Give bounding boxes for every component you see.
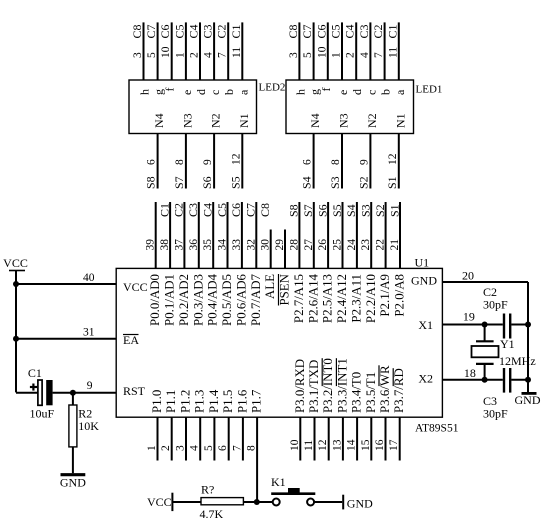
wire U1 pin 26 [327, 202, 329, 268]
wire U1 pin 23 [370, 202, 372, 268]
svg-text:C1: C1 [157, 203, 171, 217]
svg-text:AT89S51: AT89S51 [415, 423, 459, 435]
svg-text:P2.6/A14: P2.6/A14 [306, 273, 320, 323]
capacitor C1 [16, 380, 53, 405]
node X2 junction [482, 377, 488, 383]
svg-text:4: 4 [189, 445, 201, 451]
svg-text:GND: GND [411, 274, 437, 288]
wire U1 pin 1 [157, 417, 159, 460]
svg-text:S2: S2 [356, 176, 370, 189]
node RST junction [70, 390, 76, 396]
wire LED1 segment C3 [369, 22, 371, 80]
wire U1 pin 2 [171, 417, 173, 460]
wire U1 pin 32 [255, 202, 257, 268]
svg-text:30pF: 30pF [483, 407, 508, 421]
wire LED2 segment C5 [185, 22, 187, 80]
capacitor C2 [504, 314, 510, 339]
svg-text:22: 22 [375, 239, 387, 251]
svg-text:PSEN: PSEN [278, 273, 292, 305]
wire LED1 segment C4 [355, 22, 357, 80]
wire LED2 segment C2 [227, 22, 229, 80]
wire U1 pin 8 [256, 417, 258, 502]
svg-text:9: 9 [87, 380, 93, 392]
svg-text:VCC: VCC [123, 280, 148, 294]
svg-text:P0.5/AD5: P0.5/AD5 [220, 274, 234, 326]
wire LED2 segment S6 [213, 134, 215, 189]
svg-text:10K: 10K [78, 419, 99, 433]
svg-text:2: 2 [189, 52, 201, 58]
svg-text:32: 32 [245, 239, 257, 251]
svg-text:7: 7 [217, 52, 229, 58]
svg-text:LED1: LED1 [416, 84, 443, 96]
svg-text:10uF: 10uF [30, 406, 55, 420]
wire U1 pin 18 (X2) [442, 379, 528, 381]
svg-text:P1.2: P1.2 [179, 390, 193, 413]
svg-text:P2.4/A12: P2.4/A12 [335, 274, 349, 323]
wire U1 pin 5 [213, 417, 215, 460]
svg-text:C7: C7 [244, 203, 258, 217]
svg-text:4.7K: 4.7K [200, 507, 224, 521]
svg-text:12MHz: 12MHz [499, 354, 536, 368]
wire LED2 segment C8 [143, 22, 145, 80]
svg-text:X1: X1 [418, 318, 433, 332]
svg-text:S6: S6 [200, 176, 214, 189]
svg-text:14: 14 [346, 439, 358, 451]
wire U1 pin 15 [370, 417, 372, 460]
svg-text:1: 1 [174, 52, 186, 58]
svg-text:2: 2 [345, 52, 357, 58]
resistor R? [201, 498, 243, 505]
svg-text:35: 35 [202, 239, 214, 251]
wire U1 pin 30 [270, 230, 272, 269]
svg-text:1: 1 [331, 52, 343, 58]
wire LED2 segment C1 [241, 22, 243, 80]
svg-text:C8: C8 [130, 24, 144, 38]
wire VCC rail [15, 271, 17, 393]
wire U1 pin 20 to right rail [442, 281, 528, 283]
wire U1 pin 10 [299, 417, 301, 460]
wire LED2 segment C3 [213, 22, 215, 80]
svg-text:29: 29 [274, 239, 286, 251]
svg-text:C6: C6 [158, 24, 172, 38]
ground (below R2) [60, 475, 86, 490]
svg-text:37: 37 [173, 239, 185, 251]
wire LED2 segment C6 [171, 22, 173, 80]
svg-text:8: 8 [330, 159, 342, 165]
svg-text:S2: S2 [373, 204, 387, 217]
svg-text:P3.3/INT1: P3.3/INT1 [335, 358, 349, 413]
svg-text:S1: S1 [387, 204, 401, 217]
svg-text:38: 38 [159, 239, 171, 251]
node pin8/K1 junction [254, 499, 260, 505]
wire U1 pin 25 [342, 202, 344, 268]
svg-text:5: 5 [203, 445, 215, 451]
svg-text:15: 15 [360, 439, 372, 451]
wire U1 pin 12 [328, 417, 330, 460]
node C3/rail junction [525, 377, 531, 383]
svg-text:P3.0/RXD: P3.0/RXD [293, 359, 307, 413]
svg-text:GND: GND [60, 476, 86, 490]
svg-text:P3.6/WR: P3.6/WR [378, 365, 392, 413]
svg-text:6: 6 [146, 159, 158, 165]
svg-text:6: 6 [302, 159, 314, 165]
svg-text:40: 40 [83, 272, 95, 284]
svg-text:C4: C4 [201, 203, 215, 217]
svg-text:39: 39 [145, 239, 157, 251]
svg-text:S8: S8 [287, 204, 301, 217]
svg-text:C7: C7 [300, 24, 314, 38]
svg-text:e: e [336, 90, 350, 95]
wire U1 pin 14 [356, 417, 358, 460]
svg-text:30pF: 30pF [483, 298, 508, 312]
wire U1 pin 22 [385, 202, 387, 268]
svg-text:c: c [364, 90, 378, 95]
svg-text:f: f [319, 88, 333, 92]
svg-text:f: f [163, 88, 177, 92]
svg-text:S7: S7 [301, 204, 315, 217]
svg-text:C5: C5 [215, 203, 229, 217]
wire LED2 segment C7 [157, 22, 159, 80]
wire LED1 segment S4 [313, 134, 315, 189]
svg-text:P0.7/AD7: P0.7/AD7 [249, 273, 263, 325]
ground connector (bottom) [343, 495, 373, 511]
svg-text:S7: S7 [172, 176, 186, 189]
wire LED1 segment C6 [327, 22, 329, 80]
svg-text:11: 11 [387, 47, 399, 58]
ground (right rail) [515, 393, 541, 407]
svg-text:N2: N2 [209, 113, 223, 128]
svg-text:25: 25 [332, 239, 344, 251]
svg-text:N4: N4 [152, 113, 166, 128]
wire U1 pin 34 [227, 202, 229, 268]
svg-text:9: 9 [358, 159, 370, 165]
svg-text:P3.5/T1: P3.5/T1 [364, 372, 378, 413]
svg-text:3: 3 [132, 52, 144, 58]
svg-text:C5: C5 [172, 24, 186, 38]
svg-text:U1: U1 [415, 255, 430, 269]
svg-text:b: b [222, 89, 236, 95]
wire U1 pin 29 [284, 230, 286, 269]
pin label PSEN (U1) [278, 273, 292, 305]
wire LED1 segment C2 [384, 22, 386, 80]
svg-text:P1.7: P1.7 [250, 389, 264, 413]
svg-text:N3: N3 [180, 113, 194, 128]
svg-text:R?: R? [201, 483, 214, 497]
svg-text:S4: S4 [344, 204, 358, 217]
svg-text:P1.6: P1.6 [235, 389, 249, 413]
svg-text:VCC: VCC [3, 256, 28, 270]
svg-text:e: e [180, 90, 194, 95]
wire LED1 segment C8 [298, 22, 300, 80]
power VCC connector (bottom) [147, 493, 172, 511]
wire LED2 segment C4 [199, 22, 201, 80]
svg-text:S5: S5 [228, 176, 242, 189]
wire U1 pin 31 [16, 338, 116, 340]
svg-text:ALE: ALE [263, 274, 277, 299]
svg-text:GND: GND [515, 393, 541, 407]
wire LED1 segment S3 [341, 134, 343, 189]
svg-text:19: 19 [463, 309, 475, 323]
svg-text:34: 34 [217, 239, 229, 251]
svg-text:1: 1 [146, 445, 158, 451]
wire U1 pin 6 [228, 417, 230, 460]
svg-text:4: 4 [203, 52, 215, 58]
pin label P3.7/RD (U1) [392, 368, 406, 413]
wire U1 pin 4 [199, 417, 201, 460]
svg-text:N3: N3 [337, 113, 351, 128]
svg-text:P0.2/AD2: P0.2/AD2 [177, 274, 191, 326]
svg-text:K1: K1 [271, 475, 286, 489]
svg-text:10: 10 [316, 46, 328, 58]
wire LED1 segment C1 [398, 22, 400, 80]
svg-text:N1: N1 [393, 113, 407, 128]
svg-text:11: 11 [231, 47, 243, 58]
svg-text:28: 28 [288, 239, 300, 251]
svg-text:26: 26 [317, 239, 329, 251]
wire U1 pin 40 [16, 283, 116, 285]
svg-text:N2: N2 [365, 113, 379, 128]
svg-text:6: 6 [217, 445, 229, 451]
wire U1 pin 7 [242, 417, 244, 460]
wire LED2 segment S7 [185, 134, 187, 189]
svg-text:C1: C1 [385, 24, 399, 38]
svg-text:C3: C3 [201, 24, 215, 38]
svg-text:S1: S1 [385, 176, 399, 189]
svg-text:7: 7 [373, 52, 385, 58]
svg-text:5: 5 [146, 52, 158, 58]
wire U1 pin 35 [212, 202, 214, 268]
svg-text:30: 30 [260, 239, 272, 251]
svg-text:a: a [236, 89, 250, 95]
svg-text:S8: S8 [144, 176, 158, 189]
svg-text:36: 36 [188, 239, 200, 251]
svg-text:C4: C4 [343, 24, 357, 38]
wire U1 pin 11 [314, 417, 316, 460]
svg-text:3: 3 [175, 445, 187, 451]
pin label P3.3/INT1 (U1) [335, 358, 349, 413]
node VCC/pin31 junction [13, 336, 19, 342]
svg-text:P1.1: P1.1 [164, 390, 178, 413]
svg-text:GND: GND [347, 497, 373, 511]
svg-text:4: 4 [359, 52, 371, 58]
svg-text:X2: X2 [418, 371, 433, 385]
svg-text:10: 10 [289, 439, 301, 451]
svg-text:C7: C7 [144, 24, 158, 38]
node VCC/pin40 junction [13, 281, 19, 287]
svg-text:C5: C5 [329, 24, 343, 38]
svg-text:12: 12 [387, 153, 399, 165]
wire C1 to RST [53, 392, 117, 394]
svg-text:P3.2/INT0: P3.2/INT0 [321, 358, 335, 413]
svg-text:S6: S6 [315, 204, 329, 217]
svg-text:Y1: Y1 [500, 337, 515, 351]
svg-text:8: 8 [174, 159, 186, 165]
svg-text:5: 5 [302, 52, 314, 58]
svg-text:P2.1/A9: P2.1/A9 [378, 274, 392, 317]
svg-text:12: 12 [230, 153, 242, 165]
svg-text:P2.7/A15: P2.7/A15 [292, 274, 306, 323]
svg-text:18: 18 [464, 366, 476, 380]
svg-text:16: 16 [374, 439, 386, 451]
svg-text:P3.7/RD: P3.7/RD [392, 368, 406, 413]
LED1 body [286, 80, 414, 134]
wire LED2 segment S8 [157, 134, 159, 189]
wire U1 pin 13 [342, 417, 344, 460]
svg-text:S4: S4 [300, 176, 314, 189]
wire U1 pin 3 [185, 417, 187, 460]
svg-text:33: 33 [231, 239, 243, 251]
svg-text:C8: C8 [286, 24, 300, 38]
wire U1 pin 33 [241, 202, 243, 268]
svg-text:S5: S5 [330, 204, 344, 217]
svg-text:C2: C2 [215, 24, 229, 38]
svg-text:C6: C6 [229, 203, 243, 217]
svg-text:VCC: VCC [147, 495, 172, 509]
svg-text:21: 21 [389, 239, 401, 251]
svg-text:N1: N1 [237, 113, 251, 128]
svg-text:LED2: LED2 [259, 82, 286, 94]
wire U1 pin 38 [169, 202, 171, 268]
svg-text:P0.1/AD1: P0.1/AD1 [163, 274, 177, 326]
IC U1 AT89S51 body [116, 268, 442, 417]
wire right rail [527, 282, 529, 393]
svg-text:c: c [208, 90, 222, 95]
wire U1 pin 36 [198, 202, 200, 268]
svg-text:12: 12 [317, 439, 329, 451]
svg-text:N4: N4 [308, 113, 322, 128]
svg-text:P2.5/A13: P2.5/A13 [321, 274, 335, 323]
svg-text:7: 7 [231, 445, 243, 451]
pin label P3.6/WR (U1) [378, 365, 392, 413]
node C2/rail junction [525, 322, 531, 328]
svg-text:P0.0/AD0: P0.0/AD0 [148, 274, 162, 326]
svg-text:11: 11 [303, 440, 315, 451]
crystal Y1 [472, 325, 499, 380]
svg-text:23: 23 [360, 239, 372, 251]
wire U1 pin 19 (X1) [442, 324, 528, 326]
power VCC symbol (left) [3, 256, 28, 271]
pin label EA (U1) [123, 333, 139, 347]
svg-text:C1: C1 [28, 366, 42, 380]
svg-text:27: 27 [303, 239, 315, 251]
svg-text:h: h [293, 89, 307, 95]
wire U1 pin 21 [399, 202, 401, 268]
svg-text:17: 17 [388, 439, 400, 451]
wire LED1 segment C7 [313, 22, 315, 80]
svg-text:P0.3/AD3: P0.3/AD3 [191, 274, 205, 326]
svg-text:20: 20 [462, 268, 474, 282]
wire U1 pin 27 [313, 202, 315, 268]
svg-text:C4: C4 [187, 24, 201, 38]
svg-text:31: 31 [83, 327, 95, 339]
svg-text:a: a [393, 89, 407, 95]
wire U1 pin 24 [356, 202, 358, 268]
svg-text:C3: C3 [186, 203, 200, 217]
svg-text:P1.4: P1.4 [207, 389, 221, 413]
wire VCC to R? [172, 501, 201, 503]
svg-text:C2: C2 [172, 203, 186, 217]
svg-text:P1.5: P1.5 [221, 390, 235, 413]
wire U1 pin 28 [298, 202, 300, 268]
switch K1 [271, 488, 315, 506]
svg-text:d: d [350, 89, 364, 95]
pin label P3.2/INT0 (U1) [321, 358, 335, 413]
svg-text:8: 8 [246, 445, 258, 451]
svg-text:P3.1/TXD: P3.1/TXD [307, 360, 321, 413]
svg-text:h: h [138, 89, 152, 95]
svg-text:P2.0/A8: P2.0/A8 [393, 274, 407, 317]
svg-text:P1.3: P1.3 [193, 390, 207, 413]
svg-text:C8: C8 [258, 203, 272, 217]
svg-text:C1: C1 [229, 24, 243, 38]
resistor R2 [69, 393, 77, 474]
svg-text:P0.6/AD6: P0.6/AD6 [234, 273, 248, 325]
svg-text:S3: S3 [359, 204, 373, 217]
node X1 junction [482, 322, 488, 328]
wire R? to K1 [243, 501, 272, 503]
svg-text:S3: S3 [328, 176, 342, 189]
wire LED1 segment S2 [369, 134, 371, 189]
svg-text:2: 2 [160, 445, 172, 451]
wire U1 pin 37 [183, 202, 185, 268]
svg-text:d: d [194, 89, 208, 95]
wire K1 to GND [314, 501, 342, 503]
wire LED2 segment S5 [241, 134, 243, 189]
svg-text:RST: RST [123, 384, 146, 398]
svg-text:9: 9 [202, 159, 214, 165]
svg-text:P2.3/A11: P2.3/A11 [349, 274, 363, 323]
svg-text:13: 13 [331, 439, 343, 451]
svg-text:P3.4/T0: P3.4/T0 [350, 372, 364, 413]
LED2 body [129, 80, 257, 134]
svg-text:P1.0: P1.0 [150, 390, 164, 413]
wire U1 pin 16 [385, 417, 387, 460]
capacitor C3 [504, 368, 510, 393]
svg-text:3: 3 [288, 52, 300, 58]
svg-text:P2.2/A10: P2.2/A10 [364, 274, 378, 323]
svg-text:C6: C6 [314, 24, 328, 38]
wire LED1 segment S1 [398, 134, 400, 189]
wire U1 pin 17 [399, 417, 401, 460]
wire LED1 segment C5 [341, 22, 343, 80]
svg-text:b: b [379, 89, 393, 95]
svg-text:24: 24 [346, 239, 358, 251]
svg-text:C2: C2 [371, 24, 385, 38]
wire U1 pin 39 [155, 202, 157, 268]
svg-text:P0.4/AD4: P0.4/AD4 [206, 273, 220, 325]
svg-text:10: 10 [160, 46, 172, 58]
svg-text:C3: C3 [357, 24, 371, 38]
